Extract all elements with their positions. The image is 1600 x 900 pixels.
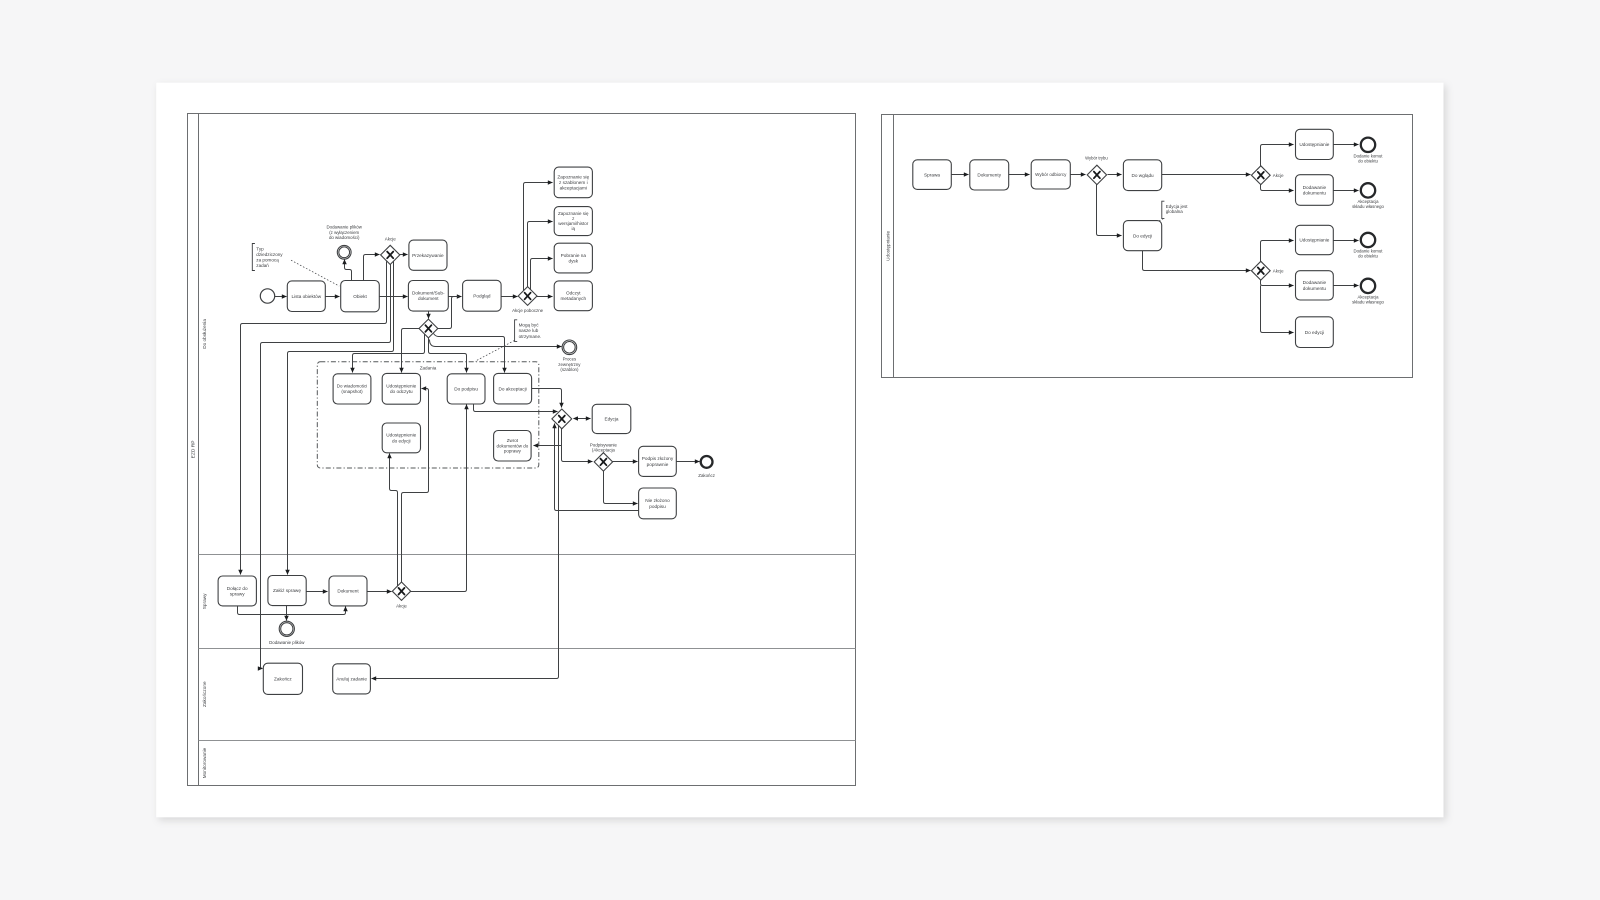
wire Dokumenty to Wybor odbiorcy	[1009, 174, 1030, 176]
wire Do akceptacji to merge gateway	[532, 389, 562, 408]
task Dodawanie dokumentu 1	[1296, 175, 1334, 206]
svg-text:Podgląd: Podgląd	[473, 293, 491, 298]
wire Akcje gw2 to Udostepnianie 2	[1261, 241, 1294, 263]
connector annotation to Zadania group	[475, 341, 514, 362]
gateway Akcje gw 1	[1251, 166, 1270, 185]
wire Do edycji down to Akcje gw 2	[1143, 251, 1251, 271]
wire Podglad to Akcje poboczne gateway	[502, 296, 518, 298]
task Udostepnianie 1	[1296, 129, 1334, 159]
svg-text:Do podpisu: Do podpisu	[454, 387, 478, 392]
svg-text:Udostępnianie: Udostępnianie	[885, 231, 890, 261]
task Dokumenty	[970, 160, 1009, 190]
svg-text:Sprawa: Sprawa	[924, 172, 940, 177]
wire Akcje poboczne to Odczyt metadanych	[537, 296, 553, 298]
wire Sprawy gateway to Udostepnienie do odczytu	[402, 389, 429, 583]
wire Zaloz sprawe to Dodawanie plikow event	[286, 606, 288, 621]
gateway Akcje gw 2	[1251, 261, 1270, 280]
wire Dolacz bottom to Dokument bottom	[238, 606, 346, 615]
gateway Wybor trybu	[1087, 165, 1106, 184]
task Dokument Sprawy	[329, 576, 367, 606]
event Dodawanie plikow top	[337, 245, 351, 259]
svg-text:Zadania: Zadania	[420, 365, 437, 370]
wire Podpis zlozony to Zakoncz end	[677, 461, 700, 463]
task Lista obiektow	[287, 281, 325, 312]
wire Do wgladu to Akcje gw 1	[1162, 174, 1251, 176]
event end Dodanie komut 2	[1361, 233, 1375, 247]
task Podpis zlozony poprawnie	[639, 446, 677, 476]
event start	[260, 289, 274, 303]
wire Sprawa to Dokumenty	[952, 174, 969, 176]
task Dolacz do sprawy	[218, 576, 256, 606]
wire merge to Anuluj zadanie	[372, 425, 559, 679]
wire merge gateway to Podpisywanie gateway	[562, 429, 593, 462]
gateway gateway2 below Dokument	[419, 319, 438, 338]
task Do akceptacji	[494, 373, 532, 404]
gateway Podpisywanie Akceptacja	[594, 453, 612, 471]
wire Akcje gateway to Przekazywanie	[400, 254, 408, 256]
task Obiekt	[341, 281, 380, 312]
wire Dodawanie dokumentu 2 to end 4	[1334, 285, 1359, 287]
gateway Akcje	[381, 245, 400, 264]
svg-text:Dokumenty: Dokumenty	[977, 173, 1001, 178]
wire Lista obiektow to Obiekt	[326, 296, 340, 298]
svg-text:Do akceptacji: Do akceptacji	[499, 386, 527, 391]
annotation Moga byc nasze	[515, 320, 542, 342]
wire Dokument/Sub-dokument to Podglad	[449, 296, 462, 298]
wire Akcje gw1 to Dodawanie dokumentu 1	[1261, 184, 1294, 191]
wire Akcje gw1 to Udostepnianie 1	[1261, 145, 1294, 167]
svg-text:Edycja: Edycja	[604, 417, 618, 422]
wire gateway2 to Udostepnienie do odczytu top	[402, 329, 420, 373]
wire Do podpisu to merge gateway	[474, 405, 558, 412]
event end Akceptacja 2	[1361, 279, 1375, 293]
svg-text:Dodawanie plików(z wyłączeniem: Dodawanie plików(z wyłączeniemdo wiadomo…	[327, 225, 363, 240]
wire Dodawanie dokumentu 1 to end 2	[1334, 190, 1359, 192]
wire Nie zlozono feedback up	[555, 424, 639, 511]
task Dodawanie dokumentu 2	[1296, 271, 1334, 300]
wire gateway2 to Do podpisu top	[429, 338, 467, 373]
svg-text:Akcje: Akcje	[1273, 173, 1284, 178]
svg-text:Do obsłużenia: Do obsłużenia	[202, 319, 207, 349]
wire Podpisywanie to Podpis zlozony	[613, 461, 638, 463]
svg-text:Dokument: Dokument	[337, 589, 359, 594]
task Udostepnienie do odczytu	[382, 373, 420, 404]
task Do wiadomosci	[333, 374, 371, 404]
connector annotation to Do edycji	[1158, 219, 1163, 222]
svg-text:Do wglądu: Do wglądu	[1132, 173, 1155, 178]
wire Wybor odbiorcy to Wybor trybu gw	[1071, 174, 1086, 176]
gateway merge gateway	[552, 409, 572, 429]
task Przekazywanie	[409, 240, 447, 270]
svg-text:Monitorowanie: Monitorowanie	[202, 747, 207, 778]
svg-text:Anuluj zadanie: Anuluj zadanie	[336, 676, 367, 681]
wire gateway2 to Do akceptacji	[434, 334, 505, 373]
wire gateway2 up to Podglad join	[438, 297, 459, 329]
task Podglad	[463, 280, 502, 311]
task Dokument/Sub-dokument	[408, 281, 448, 312]
svg-text:EZD RP: EZD RP	[191, 440, 197, 458]
wire gateway2 to Do wiadomosci	[353, 334, 425, 373]
svg-text:Przekazywanie: Przekazywanie	[412, 253, 444, 258]
svg-text:Do edycji: Do edycji	[1305, 330, 1324, 335]
event end Dodanie komut 1	[1361, 138, 1375, 152]
lane divider Do obsluzenia / Sprawy	[199, 554, 856, 556]
svg-text:Mogą byćnasze lubotrzymane.: Mogą byćnasze lubotrzymane.	[519, 323, 542, 339]
task Odczyt metadanych	[554, 281, 592, 311]
wire Akcje poboczne to Pobranie na dysk	[531, 259, 553, 291]
wire Akcje gw2 to Dodawanie dokumentu 2	[1261, 280, 1294, 286]
svg-text:Udostępnianie: Udostępnianie	[1299, 238, 1329, 243]
gateway Akcje poboczne	[518, 287, 537, 306]
event Proces zewnetrzny	[562, 340, 577, 355]
event end Akceptacja 1	[1361, 183, 1375, 197]
task Nie zlozono podpisu	[639, 488, 677, 519]
pool Udostepnianie	[882, 115, 1413, 378]
wire Akcje gateway to Zakoncz	[261, 265, 391, 669]
svg-text:Wybór trybu: Wybór trybu	[1085, 156, 1108, 161]
pool EZD RP	[188, 114, 856, 786]
connector annotation to Obiekt	[291, 260, 339, 286]
task Zapoznanie sie z szablonem	[554, 167, 592, 198]
svg-text:Załóż sprawę: Załóż sprawę	[273, 588, 301, 593]
wire merge gateway to Edycja both ways	[574, 418, 591, 420]
wire Sprawy gateway to Udostepnienie do edycji	[390, 454, 398, 587]
wire Zaloz sprawe to Dokument	[307, 591, 328, 593]
task Anuluj zadanie	[333, 664, 371, 694]
wire Akcje gw2 to Do edycji 2	[1261, 286, 1294, 333]
task Do edycji right mid	[1123, 221, 1161, 251]
task Udostepnianie 2	[1296, 225, 1334, 254]
svg-text:Zakończ: Zakończ	[698, 473, 715, 478]
wire merge branch to Zwrot dokumentow	[534, 445, 562, 447]
wire gateway2 to Proces zewnetrzny	[430, 340, 562, 347]
wire Udostepnianie 1 to end 1	[1334, 144, 1359, 146]
event Dodawanie plikow Sprawy	[279, 621, 294, 636]
svg-text:Dodawaniedokumentu: Dodawaniedokumentu	[1303, 185, 1327, 196]
svg-text:Dodawanie plików: Dodawanie plików	[269, 640, 305, 645]
group Zadania	[317, 362, 539, 468]
wire Akcje poboczne to Zapoznanie wersjami	[528, 222, 553, 288]
wire Akcje poboczne to Zapoznanie szablonem	[524, 183, 553, 292]
svg-text:Obiekt: Obiekt	[353, 294, 367, 299]
task Do wgladu	[1123, 160, 1161, 191]
svg-text:Akcje: Akcje	[385, 236, 397, 241]
task Sprawa	[913, 160, 952, 190]
svg-text:Zakończ: Zakończ	[274, 676, 292, 681]
svg-text:Wybór odbiorcy: Wybór odbiorcy	[1035, 172, 1067, 177]
task Do edycji right bottom	[1296, 317, 1334, 348]
svg-text:Akcje: Akcje	[396, 603, 407, 608]
task Pobranie na dysk	[554, 243, 592, 273]
svg-text:Udostępnieniedo odczytu: Udostępnieniedo odczytu	[386, 384, 416, 395]
lane divider Zakonczone / Monitorowanie	[199, 740, 856, 742]
svg-text:Sprawy: Sprawy	[202, 593, 207, 609]
svg-text:Akcje poboczne: Akcje poboczne	[512, 308, 544, 313]
wire Podpisywanie to Nie zlozono podpisu	[604, 471, 638, 504]
task Edycja	[592, 404, 631, 433]
svg-text:Zakończone: Zakończone	[202, 681, 207, 707]
task Zaloz sprawe	[268, 576, 306, 606]
annotation Typ dziedziczony	[252, 244, 283, 271]
event Zakoncz end	[701, 456, 713, 468]
gateway Sprawy Akcje	[392, 582, 410, 600]
wire Sprawy gateway to Do podpisu bottom	[411, 405, 467, 592]
svg-text:Akcje: Akcje	[1273, 268, 1284, 273]
wire Akcje gateway to Dolacz do sprawy	[241, 262, 387, 575]
svg-text:Podpisywanie(Akceptacja: Podpisywanie(Akceptacja	[590, 442, 618, 452]
wire Udostepnianie 2 to end 3	[1334, 240, 1359, 242]
wire Akcje gateway to Zaloz sprawe	[288, 262, 394, 575]
wire Wybor trybu down to Do edycji	[1097, 185, 1122, 236]
task Do podpisu	[447, 374, 485, 404]
task Zakoncz task	[263, 663, 302, 694]
svg-text:Zapoznanie sięz szablonem iakc: Zapoznanie sięz szablonem iakceptacjami	[557, 174, 589, 190]
wire Wybor trybu gw to Do wgladu	[1108, 174, 1122, 176]
wire Dokument to Sprawy Akcje gateway	[367, 591, 392, 593]
wire Obiekt top to Dodawanie plikow event	[345, 260, 352, 281]
white page	[156, 83, 1443, 818]
task Udostepnienie do edycji	[382, 423, 420, 453]
task Zwrot dokumentow	[494, 431, 531, 462]
wire Obiekt to Dokument/Sub-dokument	[380, 296, 408, 298]
lane divider Sprawy / Zakonczone	[199, 648, 856, 650]
wire start to Lista obiektow	[275, 296, 287, 298]
svg-text:Udostępnianie: Udostępnianie	[1299, 142, 1329, 147]
annotation Edycja jest globalna	[1162, 201, 1189, 218]
wire Dokument/Sub to gateway2	[428, 312, 430, 319]
svg-text:Lista obiektów: Lista obiektów	[291, 294, 321, 299]
svg-text:Do edycji: Do edycji	[1133, 233, 1152, 238]
wire Obiekt top to Akcje gateway	[364, 255, 380, 281]
svg-text:Dodawaniedokumentu: Dodawaniedokumentu	[1303, 280, 1327, 291]
task Zapoznanie sie z wersjami	[554, 207, 592, 236]
task Wybor odbiorcy	[1031, 160, 1070, 189]
